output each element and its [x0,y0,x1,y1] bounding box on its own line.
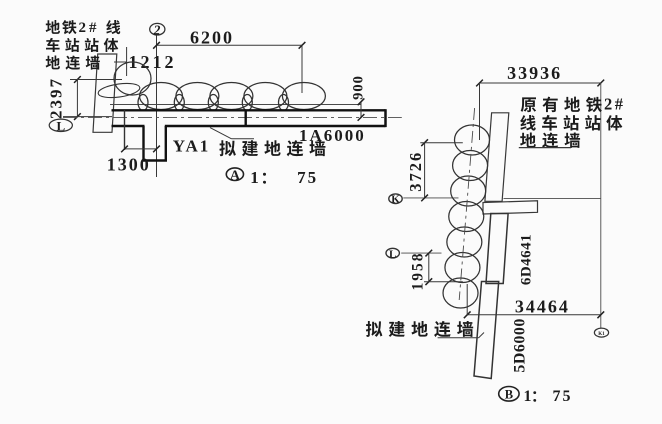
svg-text:34464: 34464 [515,297,570,317]
svg-text:2: 2 [153,22,161,37]
svg-text:1958: 1958 [410,252,427,291]
svg-text:2#: 2# [79,20,100,36]
svg-text:K1: K1 [598,332,605,337]
svg-text:K: K [391,194,400,206]
svg-text:6D4641: 6D4641 [519,234,535,285]
svg-text:5D6000: 5D6000 [512,318,529,373]
svg-text:L: L [56,119,65,134]
svg-text:1: 1 [250,168,259,187]
svg-text:A: A [230,168,241,183]
svg-text:75: 75 [297,168,318,187]
svg-text:3726: 3726 [406,151,425,192]
svg-text:900: 900 [351,75,367,100]
svg-text:YA1: YA1 [173,137,211,156]
svg-text:6200: 6200 [190,28,234,48]
svg-text:L: L [389,248,396,260]
svg-text:75: 75 [553,388,573,405]
svg-text:：: ： [260,170,276,187]
svg-text:2#: 2# [604,95,626,114]
svg-text:1300: 1300 [107,155,151,175]
svg-text:1A6000: 1A6000 [299,126,366,145]
svg-text:B: B [505,387,513,401]
svg-text:33936: 33936 [507,63,562,83]
svg-text:：: ： [531,389,546,405]
svg-text:2397: 2397 [47,77,66,119]
